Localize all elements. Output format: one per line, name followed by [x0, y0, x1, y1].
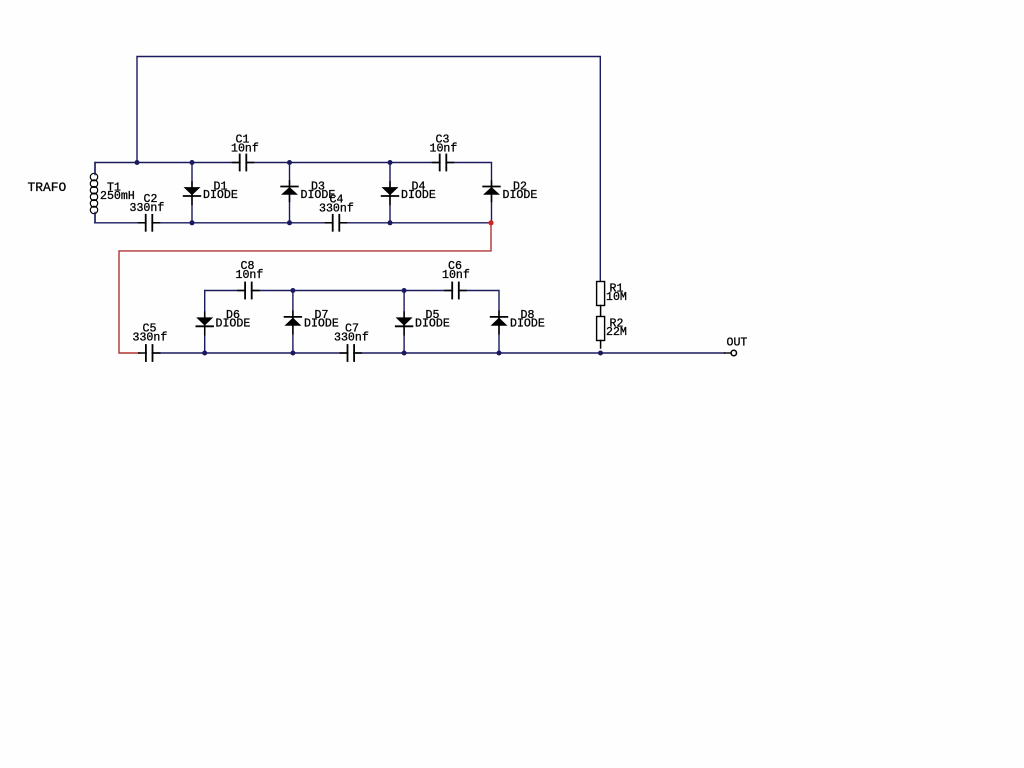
terminal OUT: [725, 350, 737, 355]
node D1 bottom: [190, 220, 195, 225]
svg-text:22M: 22M: [606, 326, 627, 339]
wire: diode D5 branch: [403, 291, 405, 354]
node D8 bottom: [497, 351, 502, 356]
capacitor C5 330nf: [139, 345, 160, 361]
capacitor C2 330nf: [139, 215, 160, 231]
diode D7 (up): [284, 311, 301, 334]
diode D1 (down): [184, 182, 201, 205]
node D5 bottom: [402, 351, 407, 356]
node D4 bottom: [388, 220, 393, 225]
resistor R2 22M: [597, 317, 605, 341]
svg-text:DIODE: DIODE: [415, 318, 450, 331]
svg-text:TRAFO: TRAFO: [28, 180, 67, 195]
resistor R1 10M: [597, 282, 605, 306]
diode D8 (up): [491, 311, 508, 334]
svg-text:330nf: 330nf: [334, 332, 369, 345]
diode D3 (up): [281, 181, 298, 202]
wire: diode D3 branch: [289, 163, 291, 223]
node D1 top: [190, 160, 195, 165]
svg-text:DIODE: DIODE: [503, 189, 538, 202]
capacitor C6 10nf: [445, 283, 466, 299]
wire: R2 bottom lead: [600, 341, 602, 349]
wire: top feedback loop from T1 top node to R1 chain: [137, 57, 600, 282]
node D5 top: [402, 288, 407, 293]
wire: row1 top rail: [95, 163, 492, 223]
wire: R1-R2 link: [600, 306, 602, 317]
svg-text:DIODE: DIODE: [216, 318, 251, 331]
wire: row2 bottom rail / output line: [146, 352, 725, 354]
svg-text:330nf: 330nf: [133, 332, 168, 345]
node R2 bottom: [598, 351, 603, 356]
diode D6 (down): [196, 312, 213, 335]
capacitor C1 10nf: [233, 155, 254, 171]
wire: diode D4 branch: [389, 163, 391, 223]
svg-text:10nf: 10nf: [442, 269, 470, 282]
svg-text:10nf: 10nf: [430, 143, 458, 156]
capacitor C7 330nf: [340, 345, 361, 361]
svg-text:330nf: 330nf: [319, 203, 354, 216]
node D3 bottom: [287, 220, 292, 225]
node D4 top: [388, 160, 393, 165]
capacitor C8 10nf: [238, 283, 259, 299]
svg-text:DIODE: DIODE: [510, 318, 545, 331]
svg-text:DIODE: DIODE: [401, 189, 436, 202]
capacitor C4 330nf: [326, 215, 347, 231]
svg-text:OUT: OUT: [727, 337, 748, 350]
wire: diode D1 branch: [191, 163, 193, 223]
wire: diode D7 branch: [292, 291, 294, 354]
svg-text:DIODE: DIODE: [203, 189, 238, 202]
wire: row1 bottom rail: [95, 222, 491, 224]
svg-text:10nf: 10nf: [236, 269, 264, 282]
wire: row2 top rail: [205, 291, 499, 354]
diode D4 (down): [382, 182, 399, 205]
node D7 top: [290, 288, 295, 293]
node red junction: [488, 220, 493, 225]
node D7 bottom: [290, 351, 295, 356]
node D3 top: [287, 160, 292, 165]
node D6 bottom: [202, 351, 207, 356]
svg-text:10nf: 10nf: [231, 143, 259, 156]
diode D2 (up) on right branch: [483, 181, 500, 202]
svg-text:DIODE: DIODE: [304, 318, 339, 331]
svg-text:330nf: 330nf: [130, 202, 165, 215]
inductor T1 (250mH) coil: [88, 163, 101, 223]
diode D5 (down): [396, 312, 413, 335]
node A (T1 top tap): [135, 160, 140, 165]
wire: red link from D2 cathode node down to C5: [119, 223, 491, 353]
capacitor C3 10nf: [433, 155, 454, 171]
svg-text:10M: 10M: [606, 291, 627, 304]
